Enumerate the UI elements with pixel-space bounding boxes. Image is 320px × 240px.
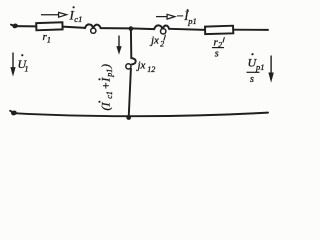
svg-text:p1: p1 xyxy=(187,16,197,26)
svg-text:1: 1 xyxy=(47,35,51,44)
svg-text:12: 12 xyxy=(147,65,155,74)
svg-text:2: 2 xyxy=(160,40,164,49)
svg-text:): ) xyxy=(99,64,113,69)
svg-text:+I: +I xyxy=(99,77,113,90)
svg-text:p1: p1 xyxy=(255,62,265,72)
svg-text:s: s xyxy=(250,74,254,85)
svg-text:p1: p1 xyxy=(105,69,114,78)
svg-text:c1: c1 xyxy=(74,14,82,24)
svg-text:c1: c1 xyxy=(105,91,114,99)
svg-text:(I: (I xyxy=(99,102,113,111)
svg-text:1: 1 xyxy=(25,65,29,74)
svg-text:jx: jx xyxy=(149,35,159,47)
svg-text:s: s xyxy=(215,49,219,60)
svg-text:jx: jx xyxy=(136,60,146,72)
